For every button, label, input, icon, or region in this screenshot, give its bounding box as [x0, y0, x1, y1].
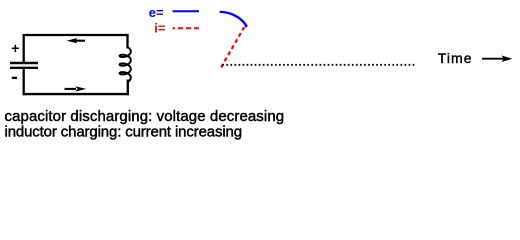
current arrow bottom (pointing right) [65, 86, 87, 91]
time arrow (pointing right) [482, 55, 512, 62]
wire bottom (tank circuit bottom conductor) [23, 93, 129, 95]
svg-text:Time: Time [438, 50, 473, 66]
svg-text:inductor charging: current inc: inductor charging: current increasing [5, 123, 242, 140]
legend sample line for e (blue solid) [173, 10, 199, 12]
wire top (tank circuit top conductor) [23, 34, 129, 36]
legend sample line for i (red dashed) [173, 27, 200, 29]
inductor (right branch, loop coil) [120, 48, 131, 82]
wire right upper (inductor top lead) [126, 34, 128, 48]
wire left lower (capacitor bottom lead) [23, 68, 25, 96]
wire left upper (capacitor top lead) [23, 34, 25, 63]
wire right lower (inductor bottom lead) [127, 80, 129, 96]
svg-text:+: + [11, 40, 19, 56]
polarity label - [12, 77, 17, 79]
current curve i (red dashed, increasing) [221, 27, 244, 67]
svg-text:e=: e= [149, 5, 164, 20]
time axis (dotted) [222, 64, 415, 66]
capacitor (left branch, two plates) [10, 63, 38, 68]
current arrow top (pointing left) [67, 38, 86, 43]
voltage curve e (blue, decreasing) [221, 12, 248, 28]
svg-text:i=: i= [154, 21, 166, 36]
